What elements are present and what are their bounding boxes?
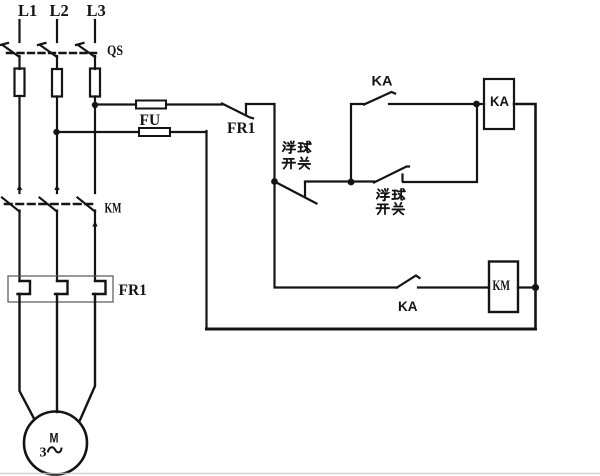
label float switch 1 (Chinese): [282, 141, 311, 168]
motor M 3-phase: [24, 412, 87, 475]
wire node A to node B: [305, 180, 374, 182]
switch QS pole 3: [76, 43, 95, 57]
wire KM pole2 to FR1: [56, 211, 58, 282]
wire L1 top stub: [18, 20, 20, 42]
svg-text:FR1: FR1: [227, 120, 255, 137]
wire L3 fuse to KM: [94, 97, 96, 194]
contactor KM pole 3: [78, 198, 96, 212]
svg-text:L2: L2: [50, 1, 69, 20]
FR1 heater element 1: [18, 281, 31, 294]
arrow mark on L1 wire: [17, 185, 22, 191]
node A: [271, 178, 278, 185]
FR1 heater element 2: [55, 281, 68, 294]
wire node C to coil KA: [476, 103, 484, 105]
bottom control wire: [207, 328, 536, 331]
svg-text:KA: KA: [490, 93, 509, 109]
wire FR1 to motor L1: [20, 294, 35, 419]
wire KM pole1 to FR1: [18, 211, 20, 282]
contactor KM pole 1: [2, 198, 20, 212]
wire fuse to FR1 contact: [166, 103, 222, 105]
svg-text:3: 3: [40, 446, 47, 461]
wire node B up to KA contact: [351, 104, 364, 182]
switch QS pole 2: [38, 43, 57, 57]
float switch 1 fixed stub: [304, 182, 306, 197]
wire coil KM to node D: [518, 286, 536, 288]
thermal overload FR1 box: [8, 276, 113, 302]
scan artifact line at bottom: [0, 473, 600, 475]
svg-text:KM: KM: [493, 278, 511, 294]
wire L3 top stub: [94, 20, 96, 42]
svg-text:KA: KA: [398, 299, 418, 314]
contactor KM pole 2: [40, 198, 58, 212]
float switch 2 blade (NO): [374, 167, 409, 183]
wire fuse2 to left rail: [170, 131, 207, 133]
svg-text:KM: KM: [105, 201, 122, 217]
node B: [348, 179, 355, 186]
wire control line 2 (from L2): [57, 131, 140, 133]
switch QS pole 1: [1, 43, 20, 57]
KM mechanical link (dashed): [5, 203, 97, 206]
wire coil KA to right rail: [514, 104, 536, 329]
wire FR1 to motor L3: [80, 294, 95, 420]
node D: [532, 284, 539, 291]
contact KA NO (top) blade: [364, 92, 395, 105]
node L3 control tap: [92, 102, 98, 108]
fuse L1: [15, 69, 25, 97]
wire QS to fuse 3: [94, 56, 96, 69]
svg-text:L1: L1: [18, 1, 37, 20]
contact KA NO (bottom) blade: [397, 276, 420, 288]
FR1 heater element 3: [93, 281, 106, 294]
wire QS to fuse 2: [56, 56, 58, 69]
wire control line 1 (from L3): [95, 103, 136, 105]
contact FR1 NC fixed stub: [245, 104, 247, 115]
QS mechanical link (dashed): [7, 52, 96, 54]
wire KM pole3 to FR1: [94, 211, 96, 282]
svg-text:M: M: [50, 430, 59, 446]
wire L1 fuse to KM: [18, 96, 20, 193]
left control rail: [205, 131, 207, 329]
wire KA contact to node C: [389, 103, 477, 105]
svg-text:KA: KA: [372, 73, 393, 89]
wire FR1 contact to node A vertical: [246, 104, 397, 288]
relay coil KA: [484, 79, 514, 129]
fuse L3: [90, 69, 100, 97]
wire L2 fuse to KM: [56, 97, 58, 194]
wire QS to fuse 1: [18, 56, 20, 69]
wire float switch 2 to node C: [403, 104, 477, 182]
svg-text:FU: FU: [140, 112, 161, 129]
arrow mark on L3 wire: [92, 221, 97, 227]
arrow mark on L2 wire: [54, 185, 59, 191]
svg-text:FR1: FR1: [119, 282, 147, 299]
fuse FU lower: [139, 128, 170, 136]
svg-text:L3: L3: [87, 1, 106, 20]
label float switch 2 (Chinese): [376, 189, 405, 215]
node L2 control tap: [53, 129, 59, 135]
fuse FU upper: [136, 101, 166, 109]
fuse L2: [52, 69, 62, 97]
float switch 1 blade (NC): [275, 182, 317, 204]
wire FR1 to motor L2: [56, 294, 58, 412]
float switch 2 fixed stub: [401, 175, 403, 182]
contact FR1 NC blade: [222, 104, 253, 119]
svg-text:QS: QS: [107, 43, 123, 59]
wire KA bottom contact to coil KM: [418, 286, 489, 288]
wire L2 top stub: [56, 20, 58, 42]
node C: [473, 101, 480, 108]
relay coil KM: [489, 262, 518, 313]
